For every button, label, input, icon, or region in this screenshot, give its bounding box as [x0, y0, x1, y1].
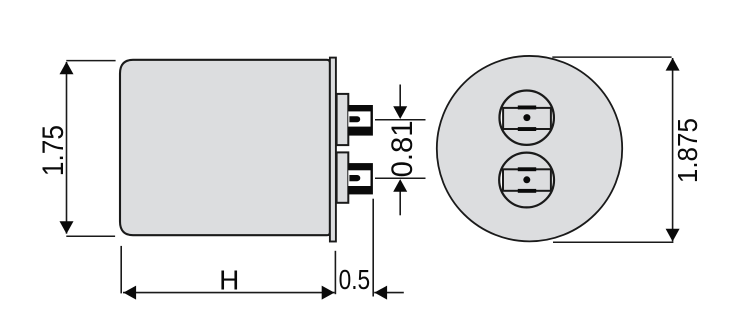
dimension 1.875 : arrow down	[666, 229, 680, 242]
mounting flange	[330, 58, 336, 242]
svg-text:1.75: 1.75	[37, 125, 70, 176]
terminal stub 1 (upper, side view)	[337, 94, 349, 145]
dimension H : extension line middle (flange edge)	[334, 251, 336, 294]
dimension 1.75 : arrow up	[60, 62, 74, 75]
dimension 1.875 : dimension line	[672, 58, 674, 241]
dimension H : arrow left	[123, 286, 136, 300]
dimension H : dimension line	[123, 292, 335, 294]
dimension 0.81 : arrow down	[393, 106, 407, 119]
quick-connect tab 1 (upper, side view)	[348, 105, 373, 136]
dimension 0.81 : upper dimension line	[399, 85, 401, 108]
svg-text:H: H	[219, 264, 239, 295]
dimension 0.81 : lower dimension line	[399, 191, 401, 215]
dimension 0.5 : tail line right	[374, 292, 404, 294]
terminal 2 (top view)	[498, 153, 556, 208]
dimension 1.75 : arrow down	[60, 221, 74, 234]
dimension 0.81 : arrow up	[393, 179, 407, 192]
svg-text:0.5: 0.5	[339, 264, 371, 295]
terminal 1 (top view)	[498, 91, 555, 145]
dimension 1.875 : extension line top	[552, 56, 671, 58]
svg-text:0.81: 0.81	[386, 120, 419, 177]
capacitor body (side view)	[120, 60, 330, 235]
dimension 1.75 : dimension line	[66, 62, 68, 234]
terminal stub 2 (lower, side view)	[337, 152, 349, 202]
capacitor can (top view circle)	[437, 56, 622, 241]
dimension 1.75 : extension line top	[66, 60, 115, 62]
dimension H : arrow right	[322, 286, 335, 300]
dimension 1.875 : extension line bottom	[553, 241, 673, 243]
svg-text:1.875: 1.875	[672, 118, 703, 183]
dimension 0.5 : arrow pointing left	[374, 286, 387, 300]
dimension 0.81 : leader line from tab 1	[375, 119, 426, 121]
dimension 0.5 : extension line right (tab edge)	[372, 199, 374, 297]
dimension 1.75 : extension line bottom	[66, 235, 115, 237]
dimension H : extension line left	[120, 246, 122, 294]
quick-connect tab 2 (lower, side view)	[348, 163, 373, 194]
dimension 1.875 : arrow up	[666, 58, 680, 71]
dimension 0.81 : leader line from tab 2	[375, 177, 426, 179]
